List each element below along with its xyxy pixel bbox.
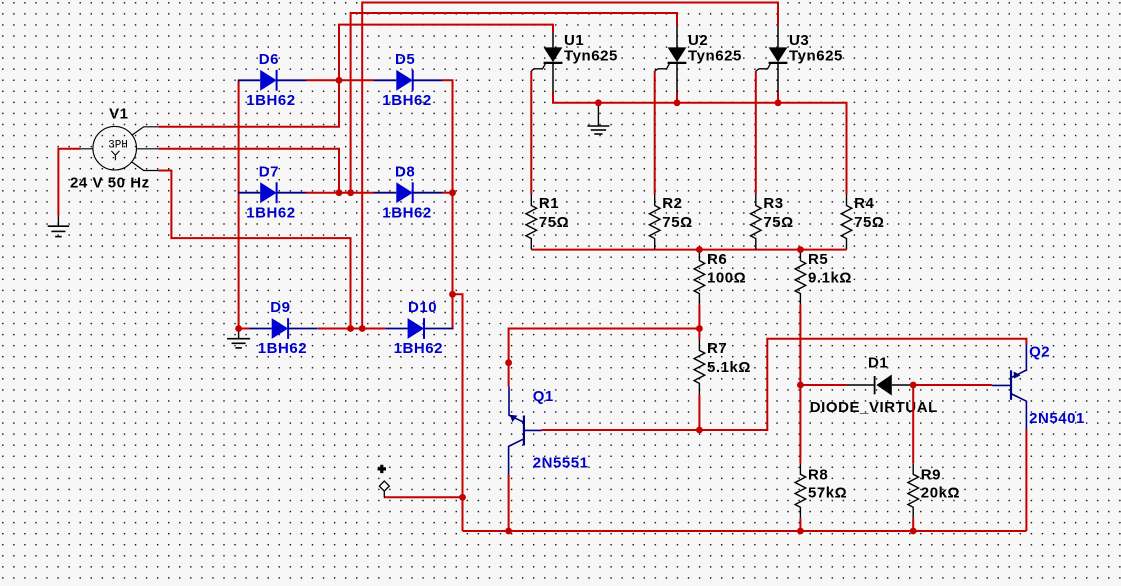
wire anode rail D6-D7-D9 [238,80,240,328]
ground anode rail [227,329,250,348]
node cath bus U2 [674,99,681,106]
wire U2 gate to R2 [654,71,656,195]
wire R5 to D1 node [799,305,801,385]
diode D9 [249,299,317,357]
resistor R4 [841,195,884,250]
svg-text:R7: R7 [707,340,727,357]
resistor R1 [526,195,569,250]
node D1 left [797,382,804,389]
wire V1 neutral to ground [58,149,80,216]
wire U1 gate to R1 [530,71,532,195]
svg-text:D6: D6 [259,51,279,68]
wire mid bus R1-R4 [531,249,846,251]
wire Q1 emitter down [508,474,510,531]
svg-text:D9: D9 [270,299,290,316]
svg-text:DIODE_VIRTUAL: DIODE_VIRTUAL [810,399,938,416]
transistor Q2 2N5401 [992,344,1085,430]
svg-text:3PH: 3PH [108,140,128,152]
wire phase C to D9-D10 node [159,171,351,329]
diode D6 [238,51,306,109]
svg-text:75Ω: 75Ω [539,214,569,231]
svg-text:V1: V1 [109,105,128,122]
wire bottom bus [463,530,1027,532]
wire branch to probe rail [453,294,463,531]
diode D5 [374,51,442,109]
svg-text:9.1kΩ: 9.1kΩ [808,269,852,286]
node branch [449,291,456,298]
node row2 U2 riser [347,189,354,196]
transistor Q1 2N5551 [509,387,589,474]
node Q1 collector [505,359,512,366]
node row1 phase A [336,77,343,84]
wire Q1 base to R7 bottom [542,429,700,431]
wire row1 D6-D5 link [306,79,374,81]
node cath bus gnd [595,99,602,106]
node row2 phase B [336,189,343,196]
wire row2 right stub [442,192,453,194]
svg-text:R1: R1 [539,195,559,212]
wire U3 gate to R3 [755,71,757,195]
wire D1 right to Q2 base [913,384,992,386]
node mid bus R6 [696,246,703,253]
resistor R9 [908,463,960,518]
wire U2 anode riser [351,13,677,193]
ground cathode bus [587,103,609,134]
svg-text:Tyn625: Tyn625 [564,48,618,65]
wire U3 anode riser [362,3,778,329]
svg-text:100Ω: 100Ω [707,269,746,286]
svg-text:U3: U3 [789,32,809,49]
svg-text:Q2: Q2 [1029,344,1050,361]
node row3 phase C [347,325,354,332]
node mid bus R5 [797,246,804,253]
wire R9 bottom [912,518,914,531]
svg-text:75Ω: 75Ω [662,214,692,231]
resistor R8 [795,463,847,518]
wire U1 cathode bus to R4 [553,93,847,195]
node bus Q1 emitter [505,528,512,535]
wire U2 cathode stub [676,93,678,103]
wire row3 left stub [239,328,250,330]
svg-text:U2: U2 [688,32,708,49]
svg-text:75Ω: 75Ω [763,214,793,231]
svg-text:1BH62: 1BH62 [258,340,307,357]
diode D7 [238,163,306,221]
svg-text:R9: R9 [921,467,941,484]
svg-text:57kΩ: 57kΩ [808,485,847,502]
node row3 anode rail [235,325,242,332]
thyristor U2 [655,25,742,92]
svg-text:R5: R5 [808,251,828,268]
wire row1 right drop to D10 [442,80,453,328]
wire Q1 collector to R6/R7 node [509,329,700,387]
wire phase B to D7-D8 node [159,149,339,193]
svg-text:1BH62: 1BH62 [382,204,431,221]
source V1 3PH Y 24V 50Hz [70,105,159,191]
wire R8 bottom [799,518,801,531]
svg-text:U1: U1 [564,32,584,49]
node row2 right [449,189,456,196]
svg-text:1BH62: 1BH62 [246,204,295,221]
resistor R2 [649,195,692,250]
diode D10 [385,299,453,357]
wire R9 top [912,385,914,463]
svg-text:1BH62: 1BH62 [246,92,295,109]
diode D8 [374,163,442,221]
svg-text:R3: R3 [763,195,783,212]
wire phase A to U1 anode [159,25,553,127]
svg-text:Tyn625: Tyn625 [789,48,843,65]
svg-text:R8: R8 [808,467,828,484]
wire row2 D7-D8 link [306,192,374,194]
resistor R7 [694,339,751,394]
svg-text:24 V 50 Hz: 24 V 50 Hz [70,175,150,192]
svg-text:1BH62: 1BH62 [382,92,431,109]
wire probe to rail [384,496,463,498]
wire R8 top [799,385,801,463]
svg-text:2N5551: 2N5551 [533,455,589,472]
wire D1 left red [800,384,847,386]
svg-text:D10: D10 [408,299,437,316]
node cath bus U3 [775,99,782,106]
wire Q2 collector down [1025,430,1027,532]
resistor R5 [795,250,852,305]
wire R7 bottom red [698,394,700,430]
svg-text:Tyn625: Tyn625 [688,48,742,65]
svg-text:Q1: Q1 [533,388,554,405]
resistor R3 [751,195,794,250]
svg-text:1BH62: 1BH62 [394,340,443,357]
svg-text:D8: D8 [395,163,415,180]
wire R7 node to Q2 emitter [699,339,1026,430]
ground under V1 [48,216,70,237]
resistor R6 [694,250,746,305]
svg-text:20kΩ: 20kΩ [921,485,960,502]
svg-text:2N5401: 2N5401 [1029,410,1085,427]
thyristor U1 [531,32,618,93]
svg-text:R2: R2 [662,195,682,212]
diode D1 DIODE_VIRTUAL [810,355,938,416]
svg-text:D7: D7 [259,163,279,180]
probe + marker [378,465,390,498]
node bus R8 [797,528,804,535]
svg-text:5.1kΩ: 5.1kΩ [707,359,751,376]
thyristor U3 [756,25,843,92]
wire row3 D9-D10 link [318,328,385,330]
wire U3 cathode stub [777,93,779,103]
node D1 right [910,382,917,389]
svg-text:D1: D1 [868,355,888,372]
svg-text:D5: D5 [395,51,415,68]
svg-text:75Ω: 75Ω [854,214,884,231]
node row3 U3 riser [359,325,366,332]
node bus R9 [910,528,917,535]
svg-text:R6: R6 [707,251,727,268]
node R7 bottom [696,427,703,434]
node probe rail [459,494,466,501]
svg-text:R4: R4 [854,195,874,212]
node R6-R7 [696,325,703,332]
wire R6 bottom link [698,305,700,340]
